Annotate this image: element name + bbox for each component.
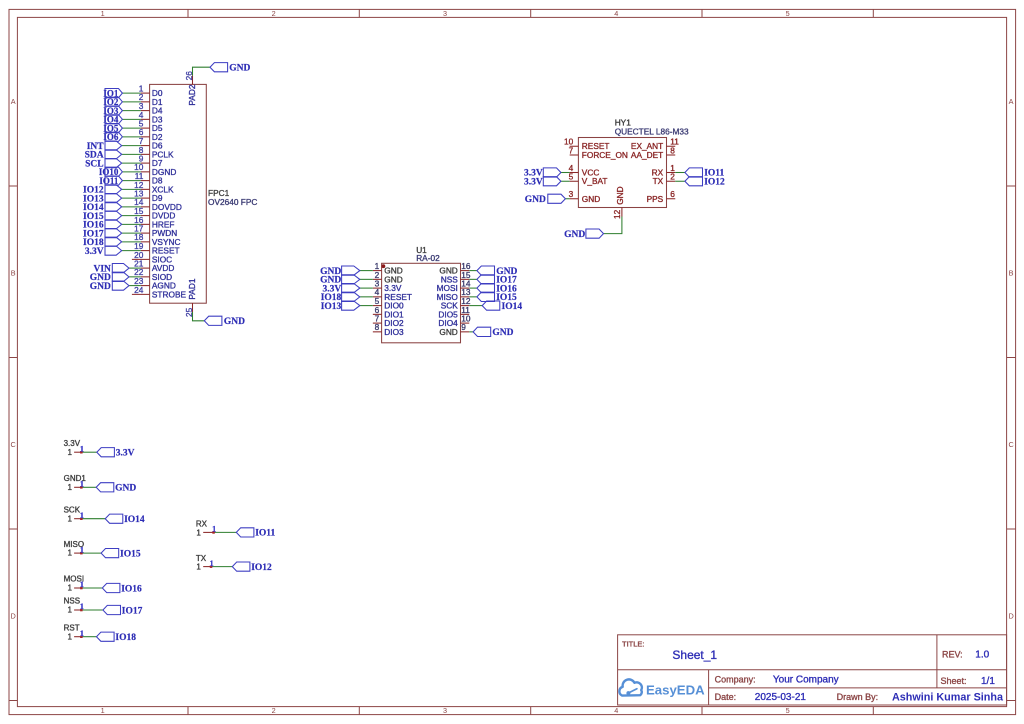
net flag IO12 (83, 185, 122, 196)
HY1 pin 1 RX (652, 163, 676, 178)
svg-text:PAD2: PAD2 (187, 84, 197, 105)
svg-text:Company:: Company: (715, 675, 756, 685)
wire (469, 270, 477, 272)
FPC1 pin 14 DOVDD (134, 197, 182, 212)
wire (81, 636, 96, 638)
net flag SCL (85, 159, 122, 170)
svg-text:6: 6 (670, 189, 675, 199)
svg-text:2: 2 (272, 706, 276, 715)
wire (360, 270, 373, 272)
svg-text:1: 1 (80, 601, 84, 611)
U1 pin 1 marker dot (382, 264, 386, 268)
U1 pin 12 SCK (441, 296, 471, 311)
svg-text:TITLE:: TITLE: (622, 640, 645, 649)
svg-text:3.3V: 3.3V (64, 439, 81, 448)
svg-text:8: 8 (375, 322, 380, 332)
wire (469, 305, 482, 307)
net flag GND (473, 327, 514, 338)
svg-text:7: 7 (569, 145, 574, 155)
svg-text:2: 2 (670, 172, 675, 182)
net flag GND (90, 272, 129, 283)
svg-text:IO16: IO16 (121, 584, 142, 594)
net flag IO14 (83, 202, 122, 213)
svg-text:IO13: IO13 (321, 302, 342, 312)
svg-text:1: 1 (67, 448, 72, 457)
svg-text:GND: GND (564, 230, 585, 240)
junction (80, 587, 83, 590)
svg-text:STROBE: STROBE (152, 289, 187, 299)
svg-text:1: 1 (80, 628, 84, 638)
svg-text:3: 3 (569, 189, 574, 199)
svg-text:9: 9 (461, 322, 466, 332)
HY1 pin 7 FORCE_ON (569, 145, 628, 160)
svg-text:GND: GND (90, 282, 111, 292)
U1 pin 14 MOSI (437, 279, 471, 294)
wire (469, 278, 477, 280)
header SCK pin 1 (64, 505, 82, 523)
header NSS pin 1 (64, 597, 82, 615)
U1 pin 4 RESET (373, 287, 412, 302)
net flag IO16 (102, 583, 142, 594)
svg-text:V_BAT: V_BAT (582, 176, 608, 186)
wire (122, 241, 141, 243)
net flag IO10 (99, 167, 123, 177)
junction (80, 552, 83, 555)
wire (122, 188, 141, 190)
svg-text:GND: GND (582, 194, 600, 204)
FPC1 pin 6 D2 (139, 127, 163, 142)
wire (81, 451, 97, 453)
svg-text:3.3V: 3.3V (524, 177, 543, 187)
svg-text:NSS: NSS (64, 597, 80, 606)
FPC1 pin 17 PWDN (134, 224, 177, 239)
svg-text:A: A (1009, 97, 1014, 106)
U1 pin 9 GND (439, 322, 469, 337)
net flag IO3 (103, 106, 122, 116)
FPC1 pin 15 DVDD (134, 206, 175, 221)
svg-text:1: 1 (67, 632, 72, 641)
net flag GND (96, 483, 136, 494)
svg-text:GND: GND (525, 195, 546, 205)
net flag IO18 (97, 632, 137, 643)
svg-text:1: 1 (196, 563, 201, 572)
svg-text:FORCE_ON: FORCE_ON (582, 150, 628, 160)
svg-text:3.3V: 3.3V (116, 449, 135, 459)
svg-text:A: A (11, 97, 16, 106)
wire (122, 101, 140, 103)
FPC1 pin 8 PCLK (139, 145, 174, 160)
wire (469, 296, 477, 298)
wire (469, 287, 477, 289)
U1 pin 3 3.3V (373, 279, 402, 294)
svg-text:C: C (11, 440, 16, 449)
wire (360, 287, 373, 289)
svg-text:1: 1 (67, 606, 72, 615)
header MISO pin 1 (64, 540, 84, 558)
svg-text:5: 5 (569, 172, 574, 182)
net flag IO11 (685, 168, 725, 179)
svg-text:IO14: IO14 (502, 302, 523, 312)
wire (565, 198, 569, 200)
net flag IO12 (232, 562, 272, 573)
wire (214, 531, 237, 533)
connector FPC1 OV2640 FPC body (150, 84, 207, 303)
header MOSI pin 1 (64, 575, 84, 593)
svg-text:2025-03-21: 2025-03-21 (755, 692, 807, 703)
net flag GND (320, 266, 360, 277)
svg-text:1: 1 (209, 558, 213, 568)
HY1 pin 8 AA_DET (631, 145, 675, 160)
svg-text:D: D (1008, 611, 1013, 620)
wire (360, 305, 373, 307)
junction (212, 531, 215, 534)
wire (122, 250, 141, 252)
net flag IO17 (83, 229, 122, 240)
net flag GND (90, 281, 129, 292)
net flag IO5 (103, 123, 122, 133)
wire (129, 285, 141, 287)
wire (193, 67, 211, 75)
svg-text:5: 5 (786, 9, 790, 18)
wire (122, 110, 140, 112)
svg-text:3.3V: 3.3V (85, 247, 104, 257)
net flag SDA (85, 150, 122, 161)
net flag 3.3V (524, 168, 561, 179)
wire (211, 566, 232, 568)
FPC1 pin 9 D7 (139, 154, 163, 169)
HY1 pin 2 TX (653, 172, 676, 187)
svg-text:DIO3: DIO3 (384, 327, 404, 337)
svg-text:Sheet_1: Sheet_1 (672, 648, 717, 662)
module U1 RA-02 body (382, 263, 461, 343)
svg-text:TX: TX (196, 554, 207, 563)
wire (81, 609, 103, 611)
svg-text:GND: GND (492, 328, 513, 338)
svg-text:2: 2 (272, 9, 276, 18)
module HY1 QUECTEL L86-M33 body (578, 138, 666, 208)
net flag 3.3V (323, 284, 360, 295)
junction (80, 609, 83, 612)
FPC1 pin 2 D1 (139, 92, 163, 107)
U1 pin 11 DIO5 (438, 305, 470, 320)
svg-text:1: 1 (67, 549, 72, 558)
HY1 pin 10 RESET (564, 137, 610, 152)
wire (122, 127, 140, 129)
wire (129, 276, 141, 278)
svg-text:IO17: IO17 (122, 606, 143, 616)
wire (604, 217, 622, 234)
FPC1 pin 10 DGND (134, 162, 176, 177)
net flag GND (477, 266, 518, 277)
svg-text:Your Company: Your Company (773, 675, 839, 686)
net flag IO1 (103, 88, 122, 98)
svg-text:3: 3 (443, 706, 447, 715)
svg-text:GND: GND (229, 64, 250, 74)
svg-text:1: 1 (80, 443, 84, 453)
FPC1 pin 7 D6 (139, 136, 163, 151)
svg-text:GND: GND (439, 327, 457, 337)
svg-text:5: 5 (786, 706, 790, 715)
net flag IO18 (83, 237, 122, 248)
wire (360, 296, 373, 298)
U1 pin 6 DIO1 (373, 305, 404, 320)
title block frame (618, 635, 1007, 705)
FPC1 pin 12 XCLK (134, 180, 174, 195)
svg-text:4: 4 (614, 9, 618, 18)
U1 pin 2 GND (373, 270, 403, 285)
FPC1 pin 20 SIOC (132, 250, 172, 265)
wire (122, 223, 141, 225)
svg-text:RA-02: RA-02 (416, 253, 440, 263)
FPC1 pin 18 VSYNC (134, 232, 180, 247)
U1 pin 16 GND (439, 261, 471, 276)
wire (122, 197, 141, 199)
net flag IO13 (321, 301, 360, 312)
HY1 pin 12 GND bottom (612, 186, 625, 219)
wire (129, 267, 141, 269)
wire (122, 180, 140, 182)
net flag IO15 (101, 549, 141, 560)
net flag IO14 (482, 301, 522, 312)
FPC1 pin 24 STROBE (132, 285, 187, 300)
net flag IO11 (99, 176, 122, 186)
junction (80, 486, 83, 489)
svg-text:OV2640 FPC: OV2640 FPC (208, 197, 257, 207)
FPC1 pin 4 D3 (139, 110, 163, 125)
wire (81, 486, 96, 488)
FPC1 pin 23 AGND (134, 276, 176, 291)
svg-text:1: 1 (212, 524, 216, 534)
wire (122, 232, 141, 234)
U1 pin 7 DIO2 (373, 314, 404, 329)
net flag IO17 (477, 275, 517, 286)
net flag IO11 (236, 528, 275, 539)
FPC1 pin 5 D5 (139, 119, 163, 134)
wire (675, 180, 685, 182)
U1 pin 8 DIO3 (373, 322, 404, 337)
HY1 pin 3 GND (569, 189, 601, 204)
ground flag GND at HY1 pin 3 (525, 194, 566, 205)
svg-text:1: 1 (196, 528, 201, 537)
svg-text:1: 1 (67, 514, 72, 523)
FPC1 pin 21 AVDD (134, 259, 174, 274)
svg-text:1.0: 1.0 (975, 649, 989, 660)
svg-text:Ashwini Kumar Sinha: Ashwini Kumar Sinha (892, 692, 1004, 704)
U1 pin 10 DIO4 (438, 314, 470, 329)
svg-text:4: 4 (614, 706, 618, 715)
net flag IO14 (105, 514, 145, 525)
svg-text:EasyEDA: EasyEDA (646, 682, 705, 697)
svg-text:AA_DET: AA_DET (631, 150, 663, 160)
svg-text:SCK: SCK (64, 505, 81, 514)
wire (122, 162, 141, 164)
wire (122, 92, 140, 94)
wire (122, 145, 141, 147)
svg-text:PPS: PPS (647, 194, 664, 204)
svg-text:RST: RST (64, 623, 80, 632)
svg-text:TX: TX (653, 176, 664, 186)
wire (561, 180, 570, 182)
net flag IO12 (685, 177, 725, 188)
svg-text:1: 1 (80, 579, 84, 589)
svg-text:REV:: REV: (942, 649, 963, 659)
net flag IO15 (477, 292, 517, 303)
ground flag GND at HY1 pin 12 (564, 229, 603, 240)
U1 pin 1 GND (373, 261, 403, 276)
wire (122, 136, 140, 138)
svg-text:1: 1 (101, 706, 105, 715)
svg-text:QUECTEL L86-M33: QUECTEL L86-M33 (615, 127, 689, 137)
svg-text:IO12: IO12 (704, 177, 725, 187)
wire (81, 518, 105, 520)
net flag VIN (93, 264, 129, 275)
svg-text:IO14: IO14 (124, 515, 145, 525)
FPC1 pin 19 RESET (134, 241, 179, 256)
svg-text:PAD1: PAD1 (187, 278, 197, 299)
FPC1 pin 22 SIOD (134, 267, 172, 282)
svg-text:IO15: IO15 (120, 549, 141, 559)
net flag IO17 (103, 605, 143, 616)
svg-text:GND: GND (615, 186, 625, 204)
net flag IO4 (103, 115, 122, 125)
HY1 pin 11 EX_ANT (631, 137, 679, 152)
header GND1 pin 1 (64, 474, 87, 492)
FPC1 pin 3 D4 (139, 101, 163, 116)
wire (122, 171, 140, 173)
ground flag GND top (210, 63, 250, 74)
net flag IO16 (477, 284, 517, 295)
HY1 pin 6 PPS (647, 189, 676, 204)
HY1 pin 5 V_BAT (569, 172, 608, 187)
svg-text:1: 1 (80, 510, 84, 520)
header RST pin 1 (64, 623, 82, 641)
svg-text:D: D (11, 611, 16, 620)
net flag IO2 (103, 97, 122, 107)
svg-text:B: B (1009, 269, 1014, 278)
svg-text:Sheet:: Sheet: (941, 676, 967, 686)
junction (80, 518, 83, 521)
wire (561, 172, 570, 174)
header 3.3V pin 1 (64, 439, 82, 457)
header TX pin 1 (196, 554, 211, 572)
wire (81, 587, 102, 589)
svg-text:1: 1 (67, 584, 72, 593)
net flag INT (87, 141, 122, 152)
wire (122, 118, 140, 120)
wire (122, 215, 141, 217)
net flag IO18 (321, 292, 360, 303)
svg-text:8: 8 (670, 145, 675, 155)
U1 pin 13 MISO (437, 287, 471, 302)
svg-text:RX: RX (196, 520, 208, 529)
FPC1 pin 25 PAD1 (184, 278, 197, 317)
HY1 pin 4 VCC (569, 163, 600, 178)
svg-text:24: 24 (134, 285, 144, 295)
svg-text:1/1: 1/1 (981, 676, 995, 687)
svg-text:3: 3 (443, 9, 447, 18)
net flag IO15 (83, 211, 122, 222)
FPC1 pin 11 D8 (135, 171, 163, 186)
net flag 3.3V (524, 177, 561, 188)
svg-text:1: 1 (67, 483, 72, 492)
svg-text:GND: GND (115, 484, 136, 494)
junction (210, 565, 213, 568)
svg-text:12: 12 (612, 209, 622, 219)
junction (80, 451, 83, 454)
svg-text:GND: GND (224, 317, 245, 327)
svg-text:B: B (11, 269, 16, 278)
net flag IO13 (83, 194, 122, 205)
EasyEDA logo (619, 679, 705, 697)
svg-text:C: C (1008, 440, 1013, 449)
wire (193, 312, 205, 321)
net flag 3.3V (85, 246, 122, 257)
net flag GND (320, 275, 360, 286)
FPC1 pin 16 HREF (134, 215, 174, 230)
wire (360, 278, 373, 280)
U1 pin 5 DIO0 (373, 296, 404, 311)
svg-text:1: 1 (80, 544, 84, 554)
FPC1 pin 26 PAD2 (184, 71, 197, 106)
wire (81, 552, 101, 554)
svg-text:Drawn By:: Drawn By: (837, 692, 879, 702)
wire (122, 153, 141, 155)
net flag IO6 (103, 132, 122, 142)
svg-text:1: 1 (101, 9, 105, 18)
wire (122, 206, 141, 208)
svg-text:IO18: IO18 (115, 633, 136, 643)
FPC1 pin 1 D0 (139, 84, 163, 99)
net flag IO16 (83, 220, 122, 231)
junction (80, 636, 83, 639)
net flag 3.3V (97, 448, 135, 459)
svg-text:IO12: IO12 (251, 563, 272, 573)
svg-text:1: 1 (80, 479, 84, 489)
wire (469, 331, 473, 333)
header RX pin 1 (196, 520, 214, 538)
ground flag GND bottom of FPC1 (204, 316, 245, 327)
svg-text:Date:: Date: (715, 692, 737, 702)
FPC1 pin 13 D9 (134, 189, 163, 204)
U1 pin 15 NSS (441, 270, 471, 285)
svg-text:IO11: IO11 (255, 529, 275, 539)
wire (675, 172, 685, 174)
